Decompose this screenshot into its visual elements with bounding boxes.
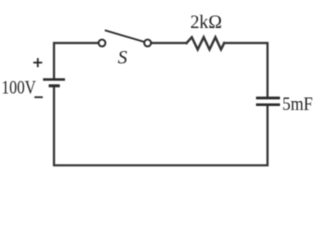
svg-text:100V: 100V — [2, 77, 37, 98]
wire resistor to top-right corner, down to capacitor — [224, 43, 267, 97]
svg-text:S: S — [118, 48, 128, 69]
switch S blade (open) — [105, 30, 144, 42]
plus sign (+) of source — [33, 58, 42, 67]
wire top-left: battery top to switch left terminal — [54, 43, 98, 79]
wire top-right: switch right terminal to resistor — [151, 42, 186, 44]
battery V1 long plate (+) — [43, 78, 65, 81]
battery V1 short plate (-) — [49, 84, 60, 87]
switch S right terminal circle — [144, 40, 151, 47]
switch S left terminal circle — [99, 40, 106, 47]
wire capacitor bottom to bottom-right corner, bottom wire, up to battery bottom — [54, 87, 268, 165]
resistor R (2kΩ) zigzag — [187, 37, 225, 49]
capacitor C (5mF) top plate — [256, 97, 280, 100]
minus sign (-) of source — [34, 96, 42, 98]
svg-text:5mF: 5mF — [282, 94, 313, 115]
svg-text:2kΩ: 2kΩ — [190, 12, 222, 33]
capacitor C (5mF) bottom plate — [256, 103, 280, 106]
